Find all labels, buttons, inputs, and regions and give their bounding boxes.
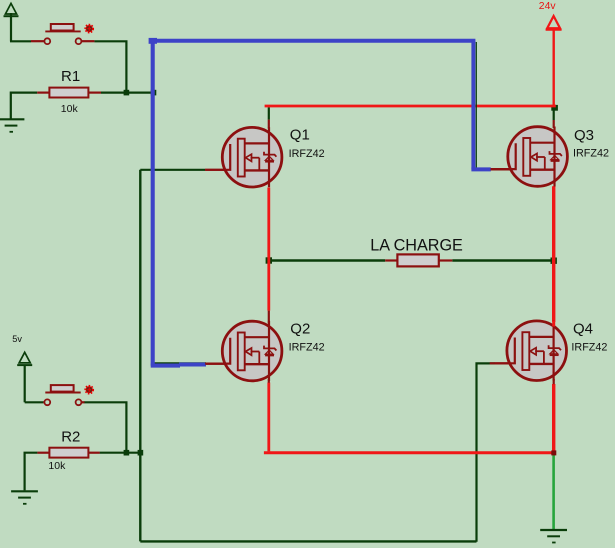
svg-text:10k: 10k (61, 103, 79, 115)
svg-text:5v: 5v (12, 334, 22, 344)
svg-text:IRFZ42: IRFZ42 (573, 147, 609, 159)
svg-text:LA CHARGE: LA CHARGE (370, 236, 463, 254)
svg-text:Q2: Q2 (290, 321, 310, 338)
svg-text:IRFZ42: IRFZ42 (289, 342, 325, 354)
svg-text:Q3: Q3 (574, 127, 594, 144)
svg-text:IRFZ42: IRFZ42 (289, 148, 325, 160)
svg-text:IRFZ42: IRFZ42 (571, 341, 607, 353)
svg-text:Q4: Q4 (573, 321, 593, 338)
svg-text:R2: R2 (61, 429, 80, 446)
svg-text:24v: 24v (539, 1, 557, 12)
svg-text:Q1: Q1 (290, 127, 310, 144)
svg-text:R1: R1 (61, 68, 80, 85)
svg-text:10k: 10k (48, 460, 66, 472)
